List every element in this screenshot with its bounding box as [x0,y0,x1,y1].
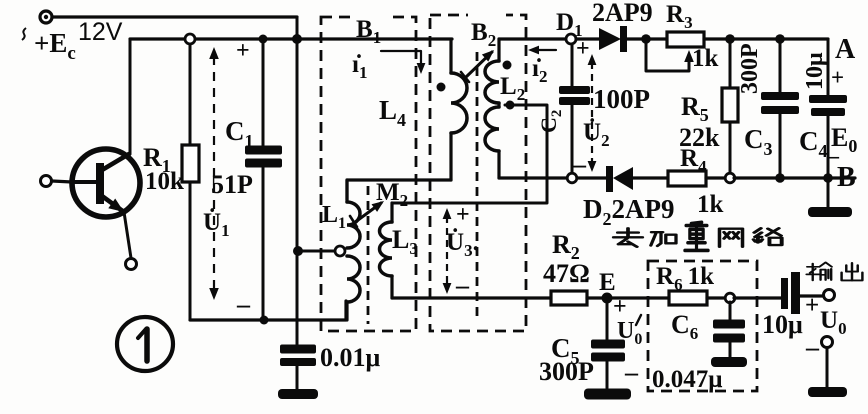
core line B1 [367,186,370,324]
junction L1 tap feed [293,246,303,256]
coil L4 [451,41,467,180]
coupling arrow B2 [461,50,494,82]
wire L4 bottom to L1 top [347,180,451,200]
svg-text:300P: 300P [737,43,763,94]
wire node to D2 [577,176,606,179]
node ring top detector [566,34,576,44]
svg-text:D22AP9: D22AP9 [583,194,675,229]
capacitor C4 [809,39,847,207]
svg-text:E: E [599,269,616,296]
svg-text:+: + [456,202,470,228]
svg-text:–: – [455,271,470,300]
junction D1 R3 [641,34,651,44]
junction C3 bottom [775,173,785,183]
potentiometer R3 [646,32,730,71]
wire to out cap [734,296,781,299]
ground below C4 [808,207,852,217]
svg-text:1k: 1k [697,191,724,218]
wire top rail [52,15,297,18]
wire detector rail right [730,37,828,40]
svg-text:+: + [805,292,819,319]
svg-text:51P: 51P [211,170,253,199]
capacitor C5 [591,298,625,388]
tap ring L1 [335,246,345,256]
svg-text:10μ: 10μ [802,52,828,90]
svg-text:0.047μ: 0.047μ [652,366,722,393]
capacitor 0.01u bypass [280,345,316,391]
diode D1 [599,26,646,52]
svg-text:22k: 22k [679,123,720,152]
svg-text:47Ω: 47Ω [543,259,590,288]
svg-text:U̇3.: U̇3. [446,228,479,260]
figure mark 1 [117,317,173,371]
wire collector supply rail [130,37,452,40]
label B1 [352,12,392,47]
junction Vcc rail [292,34,302,44]
wire L2 bottom to node [499,176,567,179]
svg-text:–: – [805,333,820,362]
wire base lead [52,181,72,182]
node ring bottom detector [567,173,577,183]
svg-text:+: + [576,36,590,62]
svg-text:10k: 10k [145,168,184,195]
stray mark [22,28,26,40]
current arrow i2 [528,46,556,55]
polarity dot L4 [437,83,446,92]
svg-text:10μ: 10μ [762,310,803,339]
wire B line right [734,176,855,179]
terminal output minus [822,337,833,348]
capacitor 10u output [781,272,823,314]
transistor Q1 [72,149,140,217]
junction C4 B line [823,173,833,183]
capacitor C6 [711,302,747,367]
junction C3 top [775,34,785,44]
wire tap feed [298,250,334,253]
svg-text:A: A [835,34,856,65]
svg-text:300P: 300P [539,357,594,386]
junction ring R1 top [185,34,195,44]
ground below 0.01u [278,389,318,399]
label B2 [468,12,506,50]
svg-text:1k: 1k [692,45,719,72]
coil L1 [347,180,360,320]
wire node to D1 [576,37,599,40]
voltage arrow U1 [209,47,219,300]
wire collector [129,39,132,154]
node E [602,293,613,304]
junction C1 top [259,35,268,44]
capacitor C3 [761,39,799,178]
wire L3 bottom to R2 [392,296,551,299]
coil L2 [485,39,499,178]
resistor R6 [669,291,726,305]
svg-text:2AP9: 2AP9 [592,0,653,27]
svg-text:0.01μ: 0.01μ [320,343,381,372]
wire output minus to ground [826,348,829,388]
terminal output plus [824,290,835,301]
svg-text:–: – [624,358,639,387]
ground below output [808,387,847,397]
wire emitter lead [124,212,131,258]
label output CJK [807,262,863,280]
transformer B2 dashed box [430,15,526,331]
svg-text:12V: 12V [78,18,123,46]
svg-text:R6 1k: R6 1k [656,263,714,294]
svg-text:–: – [236,290,251,319]
junction ring R6 C6 [725,293,735,303]
coupling arrow M2 [350,201,384,227]
polarity dot L2 [503,61,512,70]
junction C1 bottom [260,316,269,325]
capacitor C2 100P [559,44,590,173]
wire Vcc vertical feed [296,17,299,345]
svg-text:+: + [613,294,627,320]
resistor R5 [722,39,738,173]
resistor R1 [182,44,199,319]
resistor R4 [668,171,726,186]
wire bottom rail [190,301,346,320]
label de-emphasis network CJK [614,222,782,250]
terminal base input [41,176,52,187]
current arrow i1 [381,51,425,74]
terminal +Ec [40,11,52,23]
svg-text:100P: 100P [593,84,650,114]
resistor R2 [551,291,669,305]
junction L2 tap [506,101,515,110]
de-emphasis dashed box [648,261,757,391]
junction R5 top [725,34,735,44]
svg-text:+: + [831,65,844,90]
transformer B1 dashed box [321,17,416,331]
capacitor C1 [245,39,282,320]
svg-text:+: + [236,38,250,64]
voltage arrow U3 [443,208,452,294]
svg-text:B: B [837,162,856,193]
voltage arrow U2 [588,54,597,172]
wire L2 tap path [392,105,547,203]
coil L3 [379,203,392,298]
junction ring R4 R5 [725,173,735,183]
wire L2 top to node [499,37,566,40]
diode D2 [606,166,668,192]
ground below C5 [584,389,631,400]
core line B2 [476,52,479,322]
terminal emitter [126,259,137,270]
